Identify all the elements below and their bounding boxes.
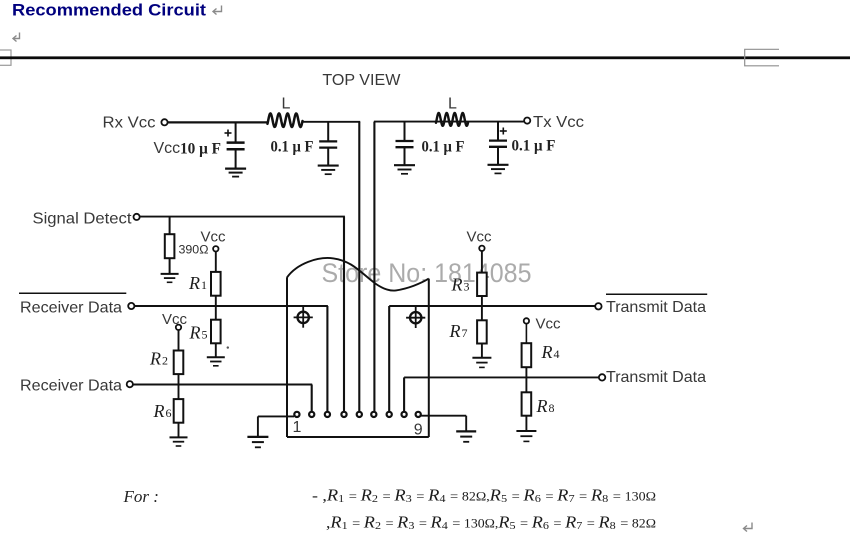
resistor R3 <box>477 273 487 296</box>
resistor R7 <box>477 320 487 343</box>
resistor R5 stem <box>215 306 217 320</box>
resistor R4 <box>522 343 532 367</box>
wire R1 to line <box>215 296 217 307</box>
wire R7 to ground <box>481 344 483 358</box>
pin 7 <box>387 412 392 417</box>
pin 8 <box>402 412 407 417</box>
ground R5 <box>207 356 225 358</box>
ground R6 <box>170 436 188 438</box>
resistor 390ohm <box>165 234 175 258</box>
wire Tx Vcc drop to pin 6 <box>373 122 375 412</box>
pin 1 <box>294 412 299 417</box>
svg-text:Vcc: Vcc <box>467 229 493 246</box>
wire R4 to line <box>525 367 527 378</box>
node Receiver Data terminal 2 <box>127 381 133 387</box>
resistor 390ohm stem <box>169 217 171 235</box>
paragraph mark after title <box>213 6 222 15</box>
horizontal rule <box>0 56 850 59</box>
resistor R5 <box>211 320 221 344</box>
wire R3 to line <box>481 296 483 307</box>
wire drop to pin 2 <box>311 385 313 412</box>
wire Rx Vcc drop to pin 5 <box>358 122 360 412</box>
node Rx Vcc terminal <box>161 119 167 125</box>
svg-text:Vcc: Vcc <box>154 140 181 157</box>
left margin handle box <box>0 50 11 65</box>
wire Rx rail left <box>168 121 268 123</box>
svg-text:6: 6 <box>166 406 172 420</box>
svg-text:R: R <box>541 342 553 362</box>
svg-text:Transmit Data: Transmit Data <box>606 299 706 316</box>
svg-text:R: R <box>149 349 161 369</box>
resistor R1 <box>211 272 221 296</box>
svg-text:0.1 μ F: 0.1 μ F <box>512 138 556 155</box>
svg-text:7: 7 <box>462 326 468 340</box>
svg-text:Vcc: Vcc <box>536 316 562 333</box>
wire Receiver Data to pin 3 <box>135 305 328 307</box>
ground C4 <box>488 164 509 166</box>
svg-text:L: L <box>448 96 457 113</box>
capacitor 0.1uF C4 <box>497 122 499 141</box>
wire Vcc to R4 <box>525 324 527 344</box>
svg-text:Signal Detect: Signal Detect <box>33 211 133 228</box>
right bracket mark <box>745 49 779 66</box>
node Transmit Data terminal 2 <box>599 374 605 380</box>
plus sign C1 <box>225 130 232 137</box>
ground pin 9 <box>456 430 476 432</box>
wire Vcc to R1 <box>215 251 217 272</box>
wire Vcc to R3 <box>481 251 483 273</box>
svg-text:4: 4 <box>554 347 560 361</box>
overbar Receiver Data <box>19 292 126 294</box>
ground 390ohm <box>161 273 179 275</box>
wire pin 8 riser <box>403 377 405 412</box>
wire Tx rail <box>374 121 525 123</box>
svg-text:Tx Vcc: Tx Vcc <box>533 114 584 131</box>
ground pin 1 <box>247 436 268 438</box>
svg-text:2: 2 <box>162 354 168 368</box>
svg-text:0.1 μ F: 0.1 μ F <box>422 139 465 156</box>
pin 5 <box>357 412 362 417</box>
wire Rx rail right <box>303 121 361 123</box>
node Transmit Data terminal <box>595 303 601 309</box>
node Vcc terminal R2 <box>176 325 181 330</box>
resistor R7 stem <box>481 306 483 320</box>
inductor L (Tx) <box>436 113 468 126</box>
pin 9 <box>416 412 421 417</box>
pin 2 <box>309 412 314 417</box>
svg-text:Transmit Data: Transmit Data <box>606 369 706 386</box>
wire Signal Detect drop to pin 4 <box>343 217 345 412</box>
wire Transmit Data line <box>389 305 595 307</box>
svg-text:Recommended Circuit: Recommended Circuit <box>12 1 206 20</box>
ground R7 <box>472 357 491 359</box>
ground R8 <box>516 430 536 432</box>
svg-text:R: R <box>189 323 201 343</box>
mounting hole right <box>406 306 425 328</box>
pin 3 <box>325 412 330 417</box>
svg-text:9: 9 <box>414 422 423 439</box>
svg-text:TOP VIEW: TOP VIEW <box>322 72 401 89</box>
wire Receiver Data to pin 2 <box>133 384 312 386</box>
node Vcc terminal R4 <box>524 318 529 323</box>
svg-text:Vcc: Vcc <box>162 311 188 328</box>
inductor L (Rx) <box>268 113 303 127</box>
resistor R6 stem <box>178 385 180 400</box>
svg-text:Rx Vcc: Rx Vcc <box>103 115 156 132</box>
svg-text:L: L <box>282 96 291 113</box>
resistor R8 stem <box>525 377 527 392</box>
module wavy top <box>287 258 429 291</box>
wire Signal Detect <box>140 216 345 218</box>
svg-text:R: R <box>153 401 165 421</box>
svg-text:Receiver Data: Receiver Data <box>20 378 122 395</box>
mounting hole left <box>294 306 313 328</box>
capacitor 0.1uF C3 <box>404 122 406 141</box>
svg-text:For :: For : <box>123 487 159 506</box>
svg-text:R: R <box>449 321 461 341</box>
svg-text:R: R <box>451 275 463 295</box>
module left edge <box>286 277 288 437</box>
capacitor 10uF C1 <box>235 122 237 142</box>
wire R8 to ground <box>525 416 527 431</box>
wire R6 to ground <box>178 423 180 437</box>
ground C2 <box>318 165 339 167</box>
paragraph mark bottom <box>744 523 753 532</box>
svg-text:1: 1 <box>201 278 207 292</box>
svg-text:R: R <box>188 273 200 293</box>
wire Transmit Data 2 line <box>404 376 599 378</box>
pin 4 <box>341 412 346 417</box>
svg-text:3: 3 <box>464 280 470 294</box>
svg-text:,R1 = R2 = R3 = R4 = 130Ω,R5 =: ,R1 = R2 = R3 = R4 = 130Ω,R5 = R6 = R7 =… <box>326 513 656 533</box>
wire 390ohm to ground <box>169 258 171 273</box>
node Vcc terminal R3 <box>479 246 484 251</box>
ground C3 <box>394 164 415 166</box>
resistor R6 <box>174 399 184 423</box>
resistor R8 <box>522 392 532 415</box>
svg-text:- ,R1 = R2 = R3 = R4 = 82Ω,R5: - ,R1 = R2 = R3 = R4 = 82Ω,R5 = R6 = R7 … <box>312 486 656 506</box>
wire pin 7 riser <box>388 306 390 412</box>
svg-text:8: 8 <box>549 401 555 415</box>
wire pin 1 to ground <box>258 415 294 417</box>
pin 6 <box>371 412 376 417</box>
svg-text:Receiver Data: Receiver Data <box>20 300 122 317</box>
node Signal Detect terminal <box>134 214 140 220</box>
node Tx Vcc terminal <box>524 118 530 124</box>
svg-text:R: R <box>536 396 548 416</box>
wire R2 to line <box>178 374 180 385</box>
wire Vcc to R2 <box>178 330 180 351</box>
svg-text:0.1 μ F: 0.1 μ F <box>271 139 314 156</box>
module bottom edge <box>287 436 429 438</box>
paragraph mark line 2 <box>13 33 20 42</box>
node Vcc terminal R1 <box>213 246 218 251</box>
overbar Transmit Data <box>606 293 707 295</box>
svg-text:1: 1 <box>293 419 302 436</box>
wire drop to pin 3 <box>326 306 328 412</box>
svg-text:10 μ F: 10 μ F <box>180 141 221 158</box>
capacitor 0.1uF C2 <box>327 122 329 141</box>
svg-text:Store No: 1814085: Store No: 1814085 <box>322 258 532 288</box>
svg-text:Vcc: Vcc <box>201 229 227 246</box>
wire pin 9 to ground <box>421 415 466 417</box>
module right edge <box>428 279 430 437</box>
plus sign C4 <box>500 128 507 135</box>
ground C1 <box>225 168 246 170</box>
node Receiver Data terminal <box>128 303 134 309</box>
svg-text:5: 5 <box>202 328 208 342</box>
speck <box>227 346 229 348</box>
resistor R2 <box>174 351 184 375</box>
wire R5 to ground <box>215 343 217 357</box>
